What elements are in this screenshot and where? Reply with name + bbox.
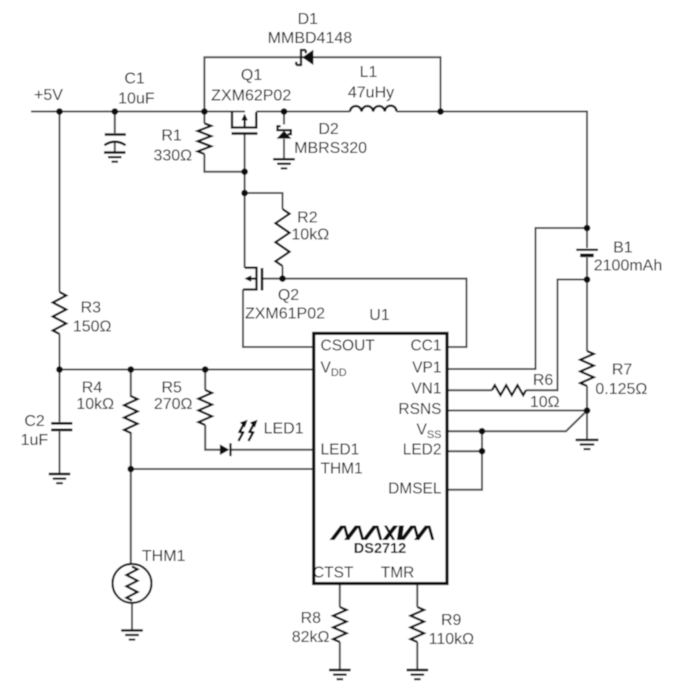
svg-text:R7: R7 bbox=[612, 361, 633, 378]
svg-text:+5V: +5V bbox=[34, 87, 63, 104]
svg-text:R6: R6 bbox=[533, 372, 554, 389]
svg-text:DS2712: DS2712 bbox=[354, 541, 406, 557]
svg-text:TMR: TMR bbox=[381, 565, 415, 582]
svg-text:150Ω: 150Ω bbox=[73, 318, 112, 335]
svg-text:R4: R4 bbox=[82, 379, 103, 396]
svg-text:ZXM62P02: ZXM62P02 bbox=[211, 88, 291, 105]
svg-text:0.125Ω: 0.125Ω bbox=[595, 381, 647, 398]
svg-text:110kΩ: 110kΩ bbox=[429, 631, 475, 648]
svg-text:RSNS: RSNS bbox=[398, 401, 441, 418]
svg-text:C2: C2 bbox=[24, 413, 45, 430]
svg-text:VN1: VN1 bbox=[411, 381, 441, 398]
svg-text:47uHy: 47uHy bbox=[348, 85, 394, 102]
svg-text:R5: R5 bbox=[161, 379, 182, 396]
svg-text:R9: R9 bbox=[441, 612, 462, 629]
svg-text:Q1: Q1 bbox=[241, 67, 262, 84]
svg-text:ZXM61P02: ZXM61P02 bbox=[245, 306, 325, 323]
svg-text:1uF: 1uF bbox=[21, 432, 49, 449]
svg-text:R3: R3 bbox=[81, 299, 102, 316]
svg-text:Q2: Q2 bbox=[278, 287, 299, 304]
svg-text:THM1: THM1 bbox=[142, 548, 186, 565]
svg-text:R8: R8 bbox=[301, 610, 322, 627]
svg-text:D1: D1 bbox=[298, 11, 319, 28]
svg-text:B1: B1 bbox=[613, 239, 633, 256]
svg-text:10uF: 10uF bbox=[118, 90, 155, 107]
svg-text:VP1: VP1 bbox=[412, 360, 441, 377]
svg-text:MMBD4148: MMBD4148 bbox=[268, 30, 353, 47]
svg-text:10kΩ: 10kΩ bbox=[76, 396, 114, 413]
svg-text:CTST: CTST bbox=[313, 565, 354, 582]
svg-text:10kΩ: 10kΩ bbox=[291, 226, 329, 243]
svg-text:LED2: LED2 bbox=[403, 442, 442, 459]
svg-text:MBRS320: MBRS320 bbox=[294, 140, 367, 157]
svg-text:THM1: THM1 bbox=[321, 461, 363, 478]
svg-text:10Ω: 10Ω bbox=[530, 394, 560, 411]
svg-text:R2: R2 bbox=[297, 209, 318, 226]
svg-text:LED1: LED1 bbox=[321, 442, 360, 459]
svg-text:D2: D2 bbox=[318, 121, 339, 138]
svg-text:2100mAh: 2100mAh bbox=[594, 258, 663, 275]
svg-text:CC1: CC1 bbox=[410, 338, 441, 355]
svg-text:LED1: LED1 bbox=[264, 420, 304, 437]
svg-text:C1: C1 bbox=[124, 70, 145, 87]
svg-text:DMSEL: DMSEL bbox=[388, 480, 442, 497]
svg-text:270Ω: 270Ω bbox=[154, 396, 193, 413]
svg-text:L1: L1 bbox=[360, 64, 378, 81]
svg-text:330Ω: 330Ω bbox=[153, 147, 192, 164]
svg-text:R1: R1 bbox=[161, 128, 182, 145]
svg-text:CSOUT: CSOUT bbox=[321, 338, 376, 355]
svg-text:82kΩ: 82kΩ bbox=[292, 629, 330, 646]
svg-text:U1: U1 bbox=[369, 307, 390, 324]
